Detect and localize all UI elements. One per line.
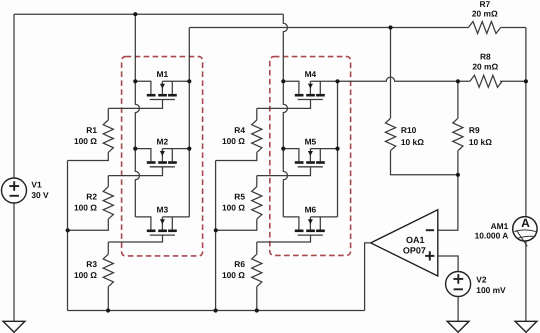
svg-text:100 Ω: 100 Ω [222,202,245,212]
svg-text:R3: R3 [86,259,97,269]
svg-text:100 Ω: 100 Ω [222,270,245,280]
wire: op-amp non-inverting input to V2 [438,256,458,272]
ground for V2 [447,321,469,332]
svg-text:M1: M1 [156,69,168,79]
svg-text:R2: R2 [86,192,97,202]
svg-text:AM1: AM1 [491,221,509,231]
wire: R10 bottom to sense node [391,151,458,175]
resistor R9 10 kOhm [453,118,463,150]
ground for V1 [3,321,25,332]
wire: right rail to ammeter [525,28,527,217]
svg-text:R1: R1 [86,125,97,135]
resistor R2 100 Ohm [107,176,109,187]
svg-text:OA1: OA1 [406,235,425,245]
voltage source V2 100mV [446,272,506,297]
ground for AM1 [515,321,537,332]
svg-text:V2: V2 [476,275,487,285]
junction: R2 bottom tie [66,228,70,232]
junction: M5 source [335,147,339,151]
junction: M2 source [187,147,191,151]
svg-text:100 mV: 100 mV [476,285,506,295]
transistor M4 [283,81,337,99]
wire: V1 left rail [13,14,15,178]
svg-text:A: A [521,216,530,230]
transistor M2 [135,149,189,167]
resistor R6 100 Ohm [256,242,258,254]
wire: M6 gate to R6 [257,235,311,242]
transistor M3 [135,217,189,235]
svg-text:M2: M2 [156,136,168,146]
wire: M1 gate to R1 (hop over drain rail) [108,100,162,109]
svg-text:R10: R10 [401,125,417,135]
junction: top net / M1-M3 drain rail [133,12,137,16]
junction: R4/R5 tie on output net [214,308,218,312]
resistor R4 100 Ohm [256,108,258,120]
resistor R3 100 Ohm [107,242,109,254]
svg-text:V1: V1 [31,179,42,189]
svg-text:R8: R8 [480,52,491,62]
junction: R9 top on third net [456,79,460,83]
transistor M6 [283,217,337,235]
svg-text:100 Ω: 100 Ω [74,270,97,280]
junction: R10 top on second net [388,25,392,29]
junction: M2 drain [133,147,137,151]
wire: op-amp output to bottom net [365,243,371,311]
wire: left tie vertical (R1/R2 bottoms) [67,161,69,311]
resistor R8 20 mOhm [470,75,502,87]
svg-text:M6: M6 [305,205,317,215]
wire: M2 gate to R2 (hop over drain rail) [108,167,162,176]
svg-text:R6: R6 [234,259,245,269]
svg-text:100 Ω: 100 Ω [222,136,245,146]
svg-text:R4: R4 [234,125,245,135]
svg-text:10 kΩ: 10 kΩ [469,137,492,147]
wire: second net (M1-3 sources to R7/R10) [189,27,468,29]
wire: source rail of M1-M3 [188,28,190,217]
svg-text:R5: R5 [234,192,245,202]
dashed group box around M1-M3 [122,57,203,256]
svg-text:10.000 A: 10.000 A [475,231,509,241]
wire: drain rail of M1-M3 (hops over gate wires) [135,14,139,217]
svg-text:30 V: 30 V [31,190,49,200]
wire: top net drop to M4-M6 drains (hop over second net) [283,14,287,81]
resistor R5 100 Ohm [256,176,258,187]
junction: M4 source [335,79,339,83]
wire: V2 to ground [457,297,459,322]
svg-text:10 kΩ: 10 kΩ [401,137,424,147]
svg-text:R9: R9 [469,125,480,135]
wire: M3 gate to R3 [108,235,162,242]
junction: R5 bottom tie [214,228,218,232]
wire: M5 gate to R5 (hop over drain rail) [257,167,311,176]
junction: R7/R8 right rail [524,79,528,83]
op-amp OA1 OP07 [371,210,438,276]
resistor R1 100 Ohm [107,108,109,120]
junction: M5 drain [281,147,285,151]
junction: R6 bottom on output net [255,308,259,312]
svg-text:M5: M5 [305,136,317,146]
wire: R10 branch from second net [390,28,392,119]
wire: M4 gate to R4 (hop over drain rail) [257,100,311,109]
junction: M1 drain [133,79,137,83]
wire: top net from V1+ [14,13,283,15]
voltage source V1 30V [2,178,50,203]
wire: bottom net [68,310,365,312]
svg-text:20 mΩ: 20 mΩ [472,62,498,72]
svg-text:100 Ω: 100 Ω [74,136,97,146]
ammeter AM1 [475,216,537,246]
svg-text:100 Ω: 100 Ω [74,202,97,212]
svg-text:OP07: OP07 [403,245,426,255]
transistor M1 [135,81,189,99]
svg-text:20 mΩ: 20 mΩ [472,9,498,19]
svg-text:M3: M3 [156,205,168,215]
junction: R3 bottom on output net [106,308,110,312]
resistor R10 10 kOhm [385,118,395,150]
junction: R9/R10 sense node [456,173,460,177]
junction: M4 drain [281,79,285,83]
wire: R9 branch from third net [457,81,459,118]
transistor M5 [283,149,337,167]
svg-text:M4: M4 [305,69,317,79]
wire: right tie vertical (R4/R5 bottoms) [215,161,217,311]
wire: source rail of M4-M6 [337,81,339,217]
wire: drain rail of M4-M6 (hops over gate wires) [283,81,287,217]
dashed group box around M4-M6 [270,57,351,256]
junction: M1 source [187,79,191,83]
wire: third net (M4-6 sources to R8/R9, hop over R10 wire) [338,77,470,81]
wire: sense node down to op-amp inverting input [438,151,458,231]
resistor R7 20 mOhm [468,22,500,34]
